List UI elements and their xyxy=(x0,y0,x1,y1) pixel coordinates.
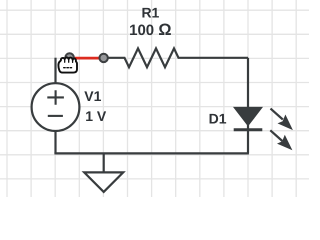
wire: V1 bottom stub xyxy=(54,131,56,153)
svg-text:R1: R1 xyxy=(141,5,159,21)
svg-text:V1: V1 xyxy=(84,88,101,104)
node B (junction on wire) xyxy=(99,54,107,62)
wire: bottom rail xyxy=(54,152,249,154)
LED D1 cathode bar xyxy=(234,128,263,131)
voltage source V1 xyxy=(32,83,80,131)
LED emission arrow 1 xyxy=(271,109,293,131)
node A (floating endpoint, dragged) xyxy=(65,53,73,61)
wire: right rail top xyxy=(247,58,249,110)
LED D1 triangle xyxy=(235,108,262,125)
wire: red floating segment xyxy=(70,57,104,60)
hand cursor (grabbing) xyxy=(58,58,77,73)
wire + resistor R1 body xyxy=(104,48,248,67)
wire: V1 top stub xyxy=(54,58,56,84)
svg-text:D1: D1 xyxy=(209,110,227,126)
wire: ground stub xyxy=(103,153,105,172)
ground xyxy=(84,172,123,192)
V1 minus sign xyxy=(48,115,63,117)
V1 plus sign xyxy=(47,90,64,105)
svg-text:100 Ω: 100 Ω xyxy=(129,21,171,39)
wire: LED bottom pin xyxy=(247,124,249,153)
LED emission arrow 2 xyxy=(270,130,292,150)
svg-text:1 V: 1 V xyxy=(85,108,107,124)
